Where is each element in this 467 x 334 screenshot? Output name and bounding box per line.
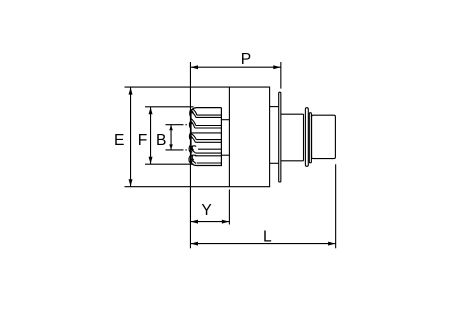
dimension Y line [190,221,229,223]
extension line F top [145,106,194,108]
extension line Y right (clutch body front face) [228,190,230,225]
pinion tooth line 7 [195,141,221,143]
svg-text:Y: Y [201,202,212,219]
svg-text:E: E [114,132,124,149]
pinion tooth flank cusp 2 [191,121,194,125]
pinion tooth line 2 [196,116,222,118]
pinion tooth line 9 [196,152,222,154]
pinion tooth line 10 [195,155,222,157]
extension line F bottom [145,163,194,165]
shaft neck top line [281,113,304,115]
pinion tooth line 4 [195,127,222,129]
extension line B top with dash-dot [166,124,187,126]
dimension B arrowheads [169,125,173,150]
dimension L line [190,243,335,245]
pinion tooth line 1 [197,114,222,116]
pinion tooth scallop 4 [189,145,191,153]
pinion tooth scallop 2 [189,121,191,129]
dimension L arrowheads [191,242,335,246]
pinion tooth flank curve 3 [191,133,197,142]
pinion tooth scallop 3 [189,133,191,141]
pinion tooth scallop 1 [190,110,192,118]
neck between body and flange bottom line [270,162,279,164]
dimension P line [190,66,280,68]
pinion hub line bottom [221,154,229,156]
dimension E line [130,87,132,187]
dimension B line [170,125,172,150]
dimension P arrowheads [191,65,281,69]
dimension F line [150,107,152,164]
pinion gear outline [191,108,221,166]
clutch body outline [229,87,269,187]
pinion tooth flank cusp 3 [191,135,193,138]
pinion tooth line 5 [191,132,221,134]
extension line E top [125,86,230,88]
shaft end [312,115,336,158]
pinion tooth flank curve 1 [192,109,197,117]
pinion tooth flank curve 5 [191,155,197,163]
shaft neck end edge [303,114,305,161]
extension line right of P (flange rear face) [280,62,282,89]
pinion hub line top [221,119,229,121]
dimension Y arrowheads [191,220,229,224]
svg-text:B: B [156,132,166,149]
extension line L right (shaft end face) [335,164,337,248]
pinion tooth flank curve 4 [191,146,196,153]
dimension F arrowheads [149,107,153,164]
svg-text:P: P [241,51,251,68]
svg-text:L: L [263,229,272,246]
dimension E arrowheads [129,87,133,186]
pinion tooth flank cusp 1 [192,110,194,114]
pinion tooth line 3 [196,125,222,127]
pinion tooth line 6 [196,139,221,141]
extension line E bottom [125,186,230,188]
pinion tooth line 8 [198,148,221,150]
pinion tooth line 11 [197,162,222,164]
pinion tooth scallop 5 [189,155,191,163]
pinion tooth flank cusp 5 [191,160,193,162]
shaft neck bottom line [281,160,304,162]
neck between body and flange top line [270,106,279,108]
flange washer [279,92,281,182]
stop ring tall [305,108,308,167]
extension line left (gear front face, shared by P, Y, L) [189,62,191,248]
svg-text:F: F [138,132,148,149]
extension line B bottom with dash-dot [166,149,187,151]
pinion tooth flank cusp 4 [191,150,193,152]
pinion tooth flank curve 2 [191,118,196,128]
stop collar [309,113,311,163]
